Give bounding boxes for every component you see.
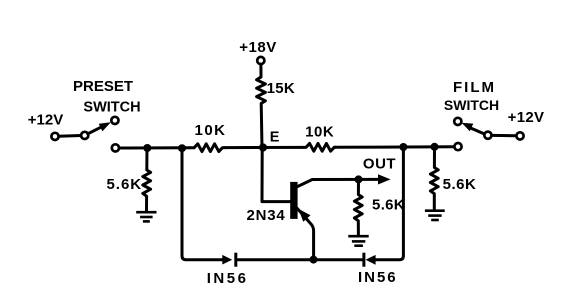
svg-text:SWITCH: SWITCH [83, 100, 140, 116]
junction dot collector/out [355, 175, 363, 183]
svg-text:IN56: IN56 [207, 270, 249, 287]
svg-text:FILM: FILM [453, 79, 496, 96]
diode 1N56 left cathode bar [234, 253, 237, 267]
switch arm arrowhead left [99, 122, 111, 131]
wire switch pivot to +12V right [492, 134, 516, 137]
svg-text:5.6K: 5.6K [443, 176, 477, 193]
junction dot left 5.6K tap [143, 144, 151, 152]
svg-text:+12V: +12V [508, 109, 545, 126]
diode 1N56 right cathode bar [362, 253, 365, 267]
wire main bus mid-left [226, 146, 303, 149]
svg-text:+12V: +12V [28, 112, 63, 129]
svg-text:E: E [270, 130, 280, 146]
switch throw circle right [454, 118, 461, 125]
wire base from node E down [262, 148, 290, 202]
resistor 15K [257, 64, 266, 147]
transistor collector lead [297, 179, 379, 186]
switch throw circle left [111, 117, 118, 124]
svg-text:5.6K: 5.6K [106, 176, 142, 193]
wire main bus mid-right [336, 145, 454, 149]
switch pivot circle left [81, 132, 88, 139]
junction dot right loop [399, 143, 407, 151]
wire left loop vertical [182, 148, 223, 260]
junction dot emitter to bottom bus [310, 256, 318, 264]
switch pivot circle right [484, 132, 491, 139]
node E junction dot [259, 143, 267, 151]
resistor 5.6K out [354, 179, 362, 234]
resistor 10K left [190, 144, 226, 152]
wire bottom bus right segment [376, 147, 404, 260]
transistor 2N34 base bar [290, 182, 297, 219]
junction dot left loop [178, 144, 186, 152]
ground out [348, 236, 368, 246]
switch arm right (FILM) [470, 128, 485, 134]
resistor 5.6K right [430, 147, 438, 209]
terminal circle +12V left [51, 133, 58, 140]
svg-text:10K: 10K [194, 122, 226, 139]
svg-text:2N34: 2N34 [246, 207, 285, 224]
svg-text:IN56: IN56 [358, 269, 398, 286]
svg-text:15K: 15K [267, 80, 295, 97]
wire main horizontal bus [120, 146, 191, 149]
svg-text:+18V: +18V [239, 39, 276, 56]
transistor emitter arrowhead [298, 209, 310, 222]
junction dot right 5.6K tap [431, 143, 439, 151]
transistor emitter lead [297, 209, 313, 260]
svg-text:OUT: OUT [363, 156, 396, 173]
resistor 10K right [303, 143, 336, 151]
svg-text:5.6K: 5.6K [372, 197, 405, 214]
ground right [425, 211, 445, 220]
switch arm left (PRESET) [88, 126, 103, 134]
terminal circle +18V [257, 57, 264, 64]
resistor 5.6K left [143, 148, 151, 211]
ground left [136, 212, 156, 221]
wire bottom bus left segment [238, 258, 363, 261]
switch arm arrowhead right [462, 123, 474, 131]
wire +12V left to switch pivot [59, 134, 81, 138]
svg-text:SWITCH: SWITCH [444, 97, 499, 113]
svg-text:10K: 10K [305, 123, 334, 140]
diode 1N56 left triangle [222, 255, 232, 265]
terminal circle +12V right [516, 132, 523, 139]
svg-text:PRESET: PRESET [73, 78, 133, 95]
diode 1N56 right triangle [366, 255, 376, 265]
terminal circle left end of bus [112, 144, 119, 151]
terminal circle right end of bus [454, 143, 461, 150]
OUT arrowhead [378, 174, 391, 184]
